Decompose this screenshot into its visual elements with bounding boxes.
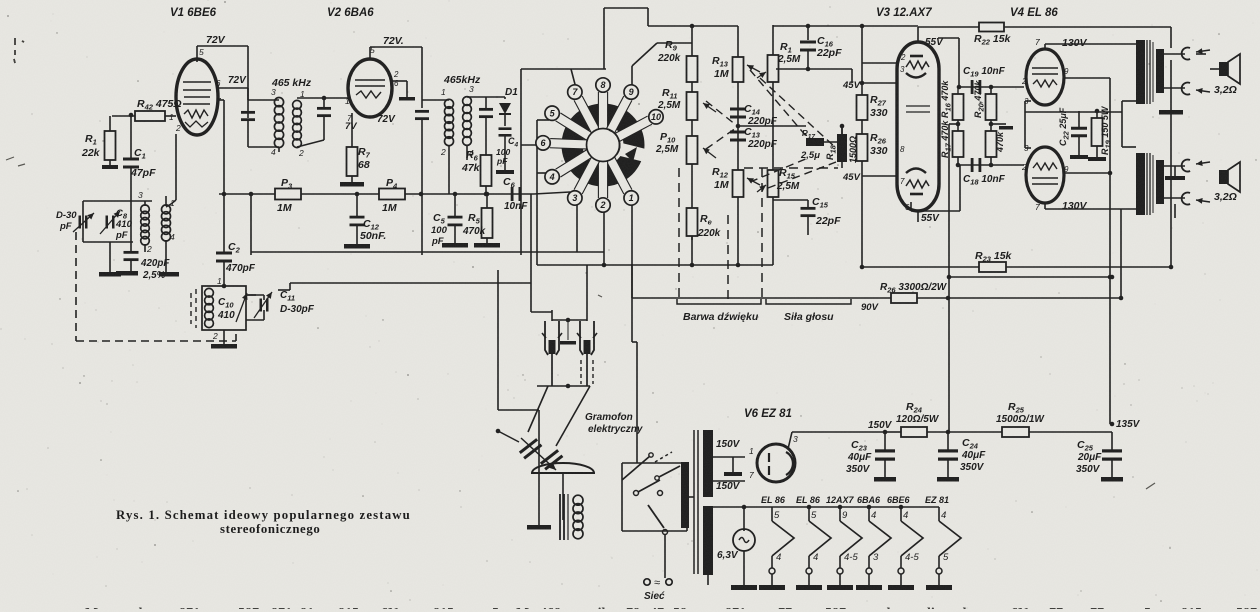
svg-text:1: 1 (345, 96, 350, 106)
svg-text:6,3V: 6,3V (717, 550, 739, 561)
svg-text:stereofonicznego: stereofonicznego (220, 522, 320, 536)
svg-text:72V: 72V (228, 75, 247, 86)
svg-text:7: 7 (1035, 202, 1040, 212)
svg-text:150V: 150V (868, 420, 893, 431)
svg-text:68: 68 (358, 159, 370, 171)
svg-text:6BA6: 6BA6 (857, 495, 881, 505)
svg-text:8: 8 (600, 80, 605, 90)
svg-text:100: 100 (431, 225, 448, 236)
svg-text:50nF.: 50nF. (360, 230, 386, 242)
svg-text:220k: 220k (657, 53, 681, 64)
svg-text:47k: 47k (461, 162, 481, 174)
svg-text:V2 6BA6: V2 6BA6 (327, 7, 374, 19)
svg-text:130V: 130V (1062, 37, 1088, 49)
svg-text:1: 1 (441, 87, 446, 97)
svg-text:1500Ω/1W: 1500Ω/1W (996, 414, 1045, 425)
svg-text:4-5: 4-5 (905, 552, 919, 563)
svg-text:4: 4 (776, 552, 781, 563)
svg-text:3,2Ω: 3,2Ω (1214, 191, 1237, 203)
svg-text:1: 1 (169, 112, 174, 122)
svg-text:1: 1 (217, 276, 222, 286)
svg-text:pF: pF (431, 236, 444, 247)
svg-text:3: 3 (138, 190, 143, 200)
svg-text:1M: 1M (382, 202, 397, 214)
svg-text:9: 9 (629, 87, 634, 97)
svg-text:7: 7 (900, 177, 905, 186)
svg-text:V4 EL 86: V4 EL 86 (1010, 7, 1058, 19)
svg-text:2: 2 (440, 147, 446, 157)
svg-text:350V: 350V (1076, 464, 1101, 475)
svg-text:Gramofon: Gramofon (585, 412, 633, 423)
svg-text:4: 4 (170, 232, 175, 242)
svg-text:7V: 7V (345, 121, 357, 132)
svg-text:120Ω/5W: 120Ω/5W (896, 414, 940, 425)
svg-text:2: 2 (146, 244, 152, 254)
svg-text:3: 3 (873, 552, 879, 563)
svg-text:2: 2 (1021, 77, 1027, 86)
svg-text:6: 6 (905, 203, 910, 212)
svg-text:1M: 1M (714, 179, 729, 191)
svg-text:22pF: 22pF (815, 215, 841, 227)
svg-text:V6 EZ 81: V6 EZ 81 (744, 408, 792, 420)
svg-text:10: 10 (651, 112, 661, 122)
svg-text:C18 10nF: C18 10nF (963, 174, 1006, 187)
svg-text:3: 3 (271, 87, 276, 97)
svg-text:4: 4 (941, 510, 946, 521)
svg-text:5: 5 (774, 510, 780, 521)
svg-text:72V: 72V (206, 34, 226, 46)
svg-text:330: 330 (870, 107, 888, 119)
svg-text:2: 2 (175, 123, 181, 133)
svg-text:470k: 470k (995, 131, 1005, 153)
svg-text:pF: pF (496, 156, 508, 166)
svg-text:4: 4 (549, 172, 555, 182)
svg-text:9: 9 (1064, 67, 1069, 76)
svg-text:4-5: 4-5 (844, 552, 858, 563)
svg-text:350V: 350V (960, 462, 985, 473)
svg-text:2,5M: 2,5M (657, 100, 681, 111)
svg-text:Sieć: Sieć (644, 591, 665, 602)
svg-text:1M: 1M (714, 68, 729, 80)
svg-text:7: 7 (1035, 37, 1040, 47)
svg-text:7: 7 (749, 470, 754, 480)
svg-text:470k: 470k (462, 226, 486, 237)
svg-text:150V: 150V (716, 481, 741, 492)
svg-text:410: 410 (115, 219, 133, 230)
svg-text:3: 3 (469, 84, 474, 94)
svg-text:47pF: 47pF (130, 167, 156, 179)
svg-text:pF: pF (115, 230, 128, 241)
svg-text:350V: 350V (846, 464, 871, 475)
svg-text:pF: pF (59, 221, 72, 232)
svg-text:330: 330 (870, 145, 888, 157)
svg-text:V3 12.AX7: V3 12.AX7 (876, 7, 932, 19)
svg-text:7: 7 (216, 96, 221, 106)
svg-text:6BE6: 6BE6 (887, 495, 911, 505)
svg-text:22pF: 22pF (816, 47, 842, 59)
svg-text:5: 5 (199, 47, 204, 57)
svg-text:220k: 220k (697, 228, 721, 239)
svg-text:Barwa dźwięku: Barwa dźwięku (683, 311, 759, 323)
svg-text:2,5M: 2,5M (655, 144, 679, 155)
svg-text:135V: 135V (1116, 419, 1141, 430)
svg-text:1: 1 (629, 193, 634, 203)
svg-text:R42 475Ω: R42 475Ω (137, 98, 182, 112)
svg-text:2: 2 (1021, 163, 1027, 172)
svg-text:C19 10nF: C19 10nF (963, 66, 1006, 79)
svg-text:4: 4 (871, 510, 876, 521)
svg-text:72V: 72V (377, 114, 396, 125)
svg-text:220pF: 220pF (747, 139, 778, 150)
svg-text:8: 8 (900, 145, 905, 154)
svg-text:45V: 45V (842, 172, 861, 183)
svg-text:Siła głosu: Siła głosu (784, 311, 834, 323)
svg-text:3,2Ω: 3,2Ω (1214, 84, 1237, 96)
svg-text:3: 3 (793, 434, 798, 444)
svg-text:EL 86: EL 86 (796, 495, 821, 505)
svg-text:Rys. 1. Schemat ideowy popu: Rys. 1. Schemat ideowy popularnego zesta… (116, 508, 411, 522)
svg-text:465kHz: 465kHz (443, 74, 481, 86)
svg-text:3: 3 (900, 65, 905, 74)
svg-text:40μF: 40μF (961, 450, 986, 461)
svg-text:55V: 55V (921, 213, 940, 224)
svg-text:R22 15k: R22 15k (974, 33, 1012, 47)
svg-text:130V: 130V (1062, 200, 1088, 212)
svg-text:150V: 150V (716, 439, 741, 450)
svg-text:D-30pF: D-30pF (280, 304, 315, 315)
svg-text:10nF: 10nF (504, 201, 528, 212)
svg-text:4: 4 (813, 552, 818, 563)
svg-text:470pF: 470pF (225, 263, 256, 274)
svg-text:D-30: D-30 (56, 210, 77, 221)
svg-text:4: 4 (271, 147, 276, 157)
svg-text:1: 1 (749, 446, 754, 456)
svg-text:22k: 22k (81, 147, 101, 159)
svg-text:2,5M: 2,5M (777, 54, 801, 65)
svg-text:90V: 90V (861, 302, 879, 313)
svg-text:20μF: 20μF (1077, 452, 1102, 463)
svg-text:9: 9 (842, 510, 848, 521)
svg-text:2: 2 (599, 200, 605, 210)
svg-text:2: 2 (298, 148, 304, 158)
svg-text:EL 86: EL 86 (761, 495, 786, 505)
svg-text:5: 5 (943, 552, 949, 563)
svg-text:EZ 81: EZ 81 (925, 495, 949, 505)
svg-text:2: 2 (393, 70, 399, 79)
svg-text:2: 2 (900, 53, 906, 62)
svg-text:6: 6 (216, 79, 221, 88)
svg-text:1M: 1M (277, 202, 292, 214)
svg-text:45V: 45V (842, 80, 861, 91)
svg-text:D1: D1 (505, 87, 518, 98)
svg-text:40μF: 40μF (847, 452, 872, 463)
svg-text:72V.: 72V. (383, 35, 404, 47)
svg-text:R23 15k: R23 15k (975, 250, 1013, 264)
svg-text:5: 5 (811, 510, 817, 521)
svg-text:410: 410 (217, 310, 235, 321)
svg-text:elektryczny: elektryczny (588, 424, 643, 435)
svg-text:2,5M: 2,5M (776, 181, 800, 192)
svg-text:3: 3 (572, 193, 577, 203)
svg-text:V1 6BE6: V1 6BE6 (170, 7, 217, 19)
svg-text:2: 2 (212, 331, 218, 341)
svg-text:465 kHz: 465 kHz (271, 77, 312, 89)
svg-text:4: 4 (903, 510, 908, 521)
svg-text:12AX7: 12AX7 (826, 495, 855, 505)
svg-text:≈: ≈ (654, 577, 660, 589)
